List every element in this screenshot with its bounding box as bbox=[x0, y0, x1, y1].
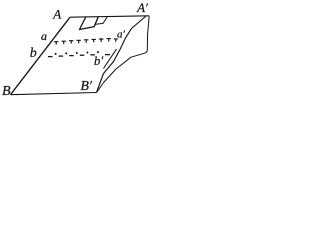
svg-text:b: b bbox=[30, 46, 37, 61]
right end face: vertical edge bending into lower edge toward B' bbox=[97, 16, 150, 93]
svg-text:b′: b′ bbox=[94, 53, 104, 68]
line b solid tail beyond b' bbox=[104, 49, 117, 69]
line b (dash-dot row, dots raised) bbox=[48, 51, 110, 57]
svg-text:a: a bbox=[41, 29, 47, 43]
svg-text:B: B bbox=[2, 84, 11, 99]
svg-text:A′: A′ bbox=[136, 0, 148, 15]
edge A'-B' (right steep side, slightly bowed) bbox=[97, 16, 147, 93]
edge AB (left side of big parallelogram) bbox=[11, 17, 71, 95]
svg-text:B′: B′ bbox=[80, 79, 93, 94]
line a (row of T tick marks) bbox=[54, 39, 118, 45]
svg-text:A: A bbox=[52, 6, 61, 21]
small parallelogram cell 2 under top edge bbox=[95, 17, 108, 25]
edge B-B' (bottom side) bbox=[11, 93, 97, 95]
edge A-A' (top side, nearly flat) bbox=[70, 16, 149, 17]
small parallelogram cell 1 under top edge bbox=[80, 17, 99, 30]
svg-text:a′: a′ bbox=[117, 28, 126, 40]
